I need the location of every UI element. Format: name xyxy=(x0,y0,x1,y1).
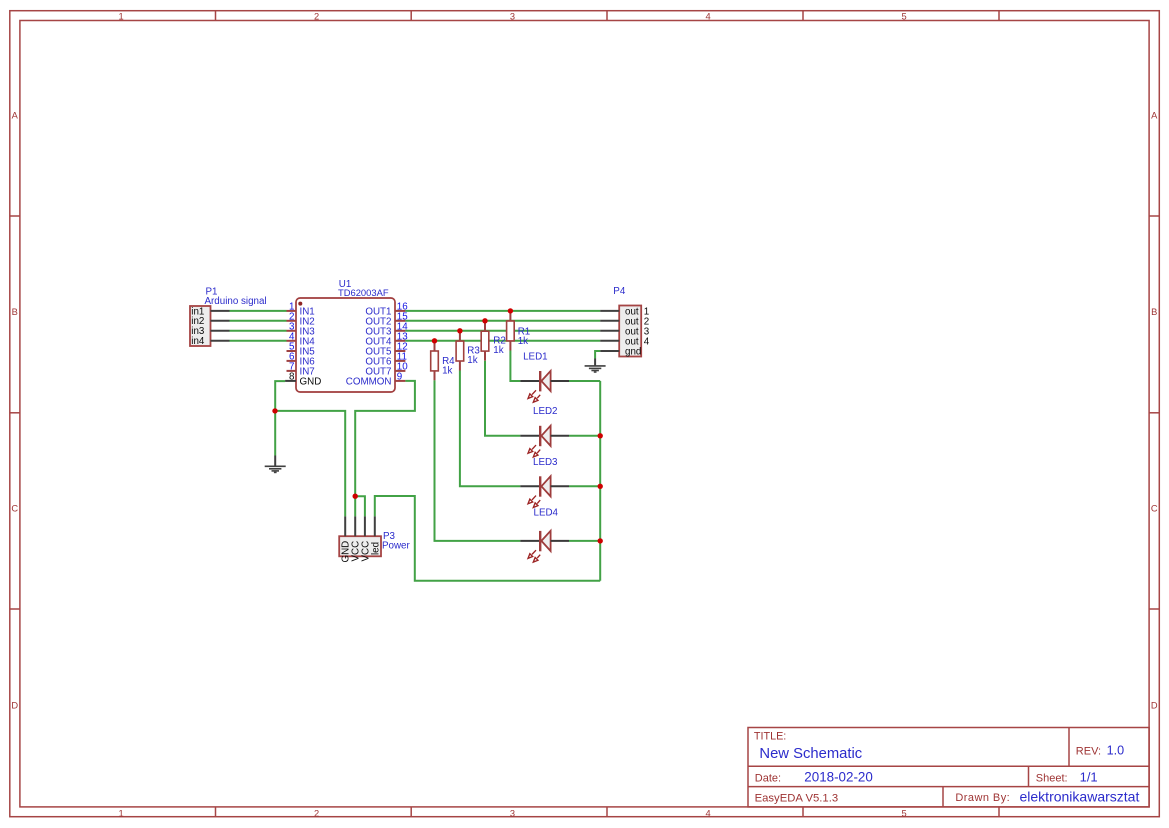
svg-text:LED4: LED4 xyxy=(534,507,559,518)
LED2 triangle xyxy=(541,426,550,446)
resistor R1 xyxy=(507,311,515,351)
LED4 cathode pin xyxy=(520,540,539,542)
svg-text:2: 2 xyxy=(314,11,319,21)
LED4 light arrows xyxy=(528,550,540,562)
LED3 cathode bar xyxy=(539,476,541,496)
svg-text:2: 2 xyxy=(314,808,319,818)
svg-text:4: 4 xyxy=(706,808,711,818)
U1 pin-1 marker dot xyxy=(298,302,302,306)
connector P1 xyxy=(190,306,230,347)
svg-text:1k: 1k xyxy=(493,345,503,356)
svg-text:GND: GND xyxy=(300,376,322,387)
svg-text:5: 5 xyxy=(902,808,907,818)
LED3 anode pin xyxy=(551,485,569,487)
wire P4.gnd to ground xyxy=(595,351,600,359)
svg-text:B: B xyxy=(1151,307,1157,317)
frame column labels top xyxy=(119,11,907,21)
U1 pin numbers 16-9 xyxy=(397,301,408,382)
frame column labels bottom xyxy=(119,808,907,818)
LED4 cathode bar xyxy=(539,531,541,551)
junction on OUT4 at R4 xyxy=(432,338,437,343)
svg-text:1/1: 1/1 xyxy=(1080,770,1098,785)
ground symbol (P4) xyxy=(585,359,606,373)
U1 body xyxy=(296,298,395,392)
wire bus bottom to P3.led xyxy=(375,496,600,581)
U1 pin 8 stub xyxy=(285,380,296,382)
svg-text:Arduino signal: Arduino signal xyxy=(205,296,267,307)
svg-text:LED1: LED1 xyxy=(523,351,548,362)
wire OUT1 row to P4.out1 xyxy=(405,310,600,312)
LED1 cathode bar xyxy=(539,371,541,391)
wire U1.COMMON to VCC net xyxy=(355,381,415,517)
wire in1 to U1.IN1 xyxy=(230,310,287,312)
title block xyxy=(748,728,1149,808)
junction on OUT1 at R1 xyxy=(508,308,513,313)
P4 pin names out1-out4, gnd xyxy=(625,306,650,357)
junction right bus LED2 xyxy=(598,433,603,438)
wire OUT4 row to P4.out4 xyxy=(405,340,600,342)
wire in2 to U1.IN2 xyxy=(230,320,287,322)
svg-text:New Schematic: New Schematic xyxy=(759,746,862,762)
svg-text:1k: 1k xyxy=(467,355,477,366)
svg-text:1: 1 xyxy=(119,808,124,818)
LED4 anode pin xyxy=(551,540,569,542)
svg-text:C: C xyxy=(11,504,18,514)
wire in3 to U1.IN3 xyxy=(230,330,287,332)
svg-text:Drawn By:: Drawn By: xyxy=(955,792,1010,804)
svg-text:1: 1 xyxy=(119,11,124,21)
junction GND net xyxy=(272,408,277,413)
svg-text:9: 9 xyxy=(397,371,402,382)
svg-text:2018-02-20: 2018-02-20 xyxy=(804,769,873,784)
P4 pins 1-5 xyxy=(600,311,619,351)
junction on OUT3 at R3 xyxy=(457,328,462,333)
ground symbol (main) xyxy=(265,456,286,473)
svg-text:A: A xyxy=(1151,111,1158,121)
wire GND net to P3.GND xyxy=(275,411,345,517)
wire R3 to LED3 xyxy=(460,371,520,487)
svg-text:D: D xyxy=(11,701,18,711)
junction right bus LED3 xyxy=(598,484,603,489)
svg-text:3: 3 xyxy=(510,808,515,818)
resistor R3 xyxy=(456,331,464,371)
wire R1 to LED1 xyxy=(510,351,520,382)
junction on OUT2 at R2 xyxy=(482,318,487,323)
svg-text:elektronikawarsztat: elektronikawarsztat xyxy=(1020,789,1140,805)
wire right bus vertical xyxy=(599,381,601,581)
svg-text:gnd: gnd xyxy=(625,347,641,358)
junction VCC at P3 xyxy=(353,494,358,499)
wire R4 to LED4 xyxy=(435,380,521,541)
LED1 anode pin xyxy=(551,380,569,382)
P1 body xyxy=(190,306,211,346)
frame row labels left xyxy=(11,111,18,711)
svg-text:LED2: LED2 xyxy=(533,406,558,417)
LED2 light arrows xyxy=(528,445,540,457)
svg-text:8: 8 xyxy=(289,371,295,382)
U1 pin numbers 1-7 xyxy=(289,301,295,372)
wire OUT2 row to P4.out2 xyxy=(405,320,600,322)
wire VCC to P3.VCC2 xyxy=(355,496,365,516)
U1 pin names IN1-IN7 xyxy=(300,306,316,377)
svg-text:3: 3 xyxy=(510,11,515,21)
svg-text:COMMON: COMMON xyxy=(346,376,392,387)
resistor R4 xyxy=(431,341,439,381)
svg-text:EasyEDA V5.1.3: EasyEDA V5.1.3 xyxy=(755,793,839,805)
svg-text:A: A xyxy=(12,111,19,121)
resistor R2 xyxy=(481,321,489,361)
wire R2 to LED2 xyxy=(485,361,520,436)
svg-text:D: D xyxy=(1151,701,1158,711)
svg-text:1k: 1k xyxy=(442,365,452,376)
LED2 anode pin xyxy=(551,435,569,437)
frame row labels right xyxy=(1151,111,1158,711)
P4 body xyxy=(619,306,641,357)
svg-text:Date:: Date: xyxy=(755,772,781,784)
svg-text:Power: Power xyxy=(382,541,411,552)
wire LED4 to right bus xyxy=(569,540,600,542)
svg-text:LED3: LED3 xyxy=(533,457,558,468)
svg-text:TD62003AF: TD62003AF xyxy=(338,287,389,298)
svg-text:REV:: REV: xyxy=(1076,745,1101,757)
svg-text:in4: in4 xyxy=(191,336,205,347)
LED2 cathode bar xyxy=(539,426,541,446)
P1 pins 1-4 xyxy=(211,311,230,341)
connector P3 xyxy=(339,516,381,562)
LED LED2 xyxy=(520,426,569,457)
LED1 light arrows xyxy=(528,390,540,402)
LED1 cathode pin xyxy=(520,380,539,382)
LED1 triangle xyxy=(541,371,550,391)
U1 pin names OUT1-OUT7, COMMON xyxy=(346,306,392,387)
junction right bus LED4 xyxy=(598,538,603,543)
wire LED3 to right bus xyxy=(569,485,600,487)
svg-text:P4: P4 xyxy=(613,286,626,297)
LED LED3 xyxy=(520,476,569,507)
wire OUT3 row to P4.out3 xyxy=(405,330,600,332)
svg-text:led: led xyxy=(370,542,381,555)
LED3 cathode pin xyxy=(520,485,539,487)
LED LED1 xyxy=(520,371,569,402)
svg-text:4: 4 xyxy=(706,11,711,21)
LED3 triangle xyxy=(541,476,550,496)
P3 pin names GND VCC VCC led xyxy=(341,541,382,563)
wire LED2 to right bus xyxy=(569,435,600,437)
svg-text:C: C xyxy=(1151,504,1158,514)
svg-text:1k: 1k xyxy=(518,336,528,347)
LED3 light arrows xyxy=(528,496,540,508)
connector P4 xyxy=(600,306,650,358)
svg-text:B: B xyxy=(12,307,18,317)
P3 pins 1-4 xyxy=(345,516,375,536)
U1 pin stubs 1-7 and 16-9 xyxy=(287,311,406,381)
svg-text:Sheet:: Sheet: xyxy=(1036,773,1068,785)
IC U1 TD62003AF xyxy=(285,298,408,392)
LED LED4 xyxy=(520,531,569,562)
wire in4 to U1.IN4 xyxy=(230,340,287,342)
LED2 cathode pin xyxy=(520,435,539,437)
svg-text:1.0: 1.0 xyxy=(1107,743,1125,757)
svg-text:5: 5 xyxy=(902,11,907,21)
wire LED1 to right bus xyxy=(569,380,600,382)
wire U1.GND to ground xyxy=(275,381,285,455)
svg-text:TITLE:: TITLE: xyxy=(754,731,786,743)
LED4 triangle xyxy=(541,531,550,551)
P3 body xyxy=(339,536,381,556)
